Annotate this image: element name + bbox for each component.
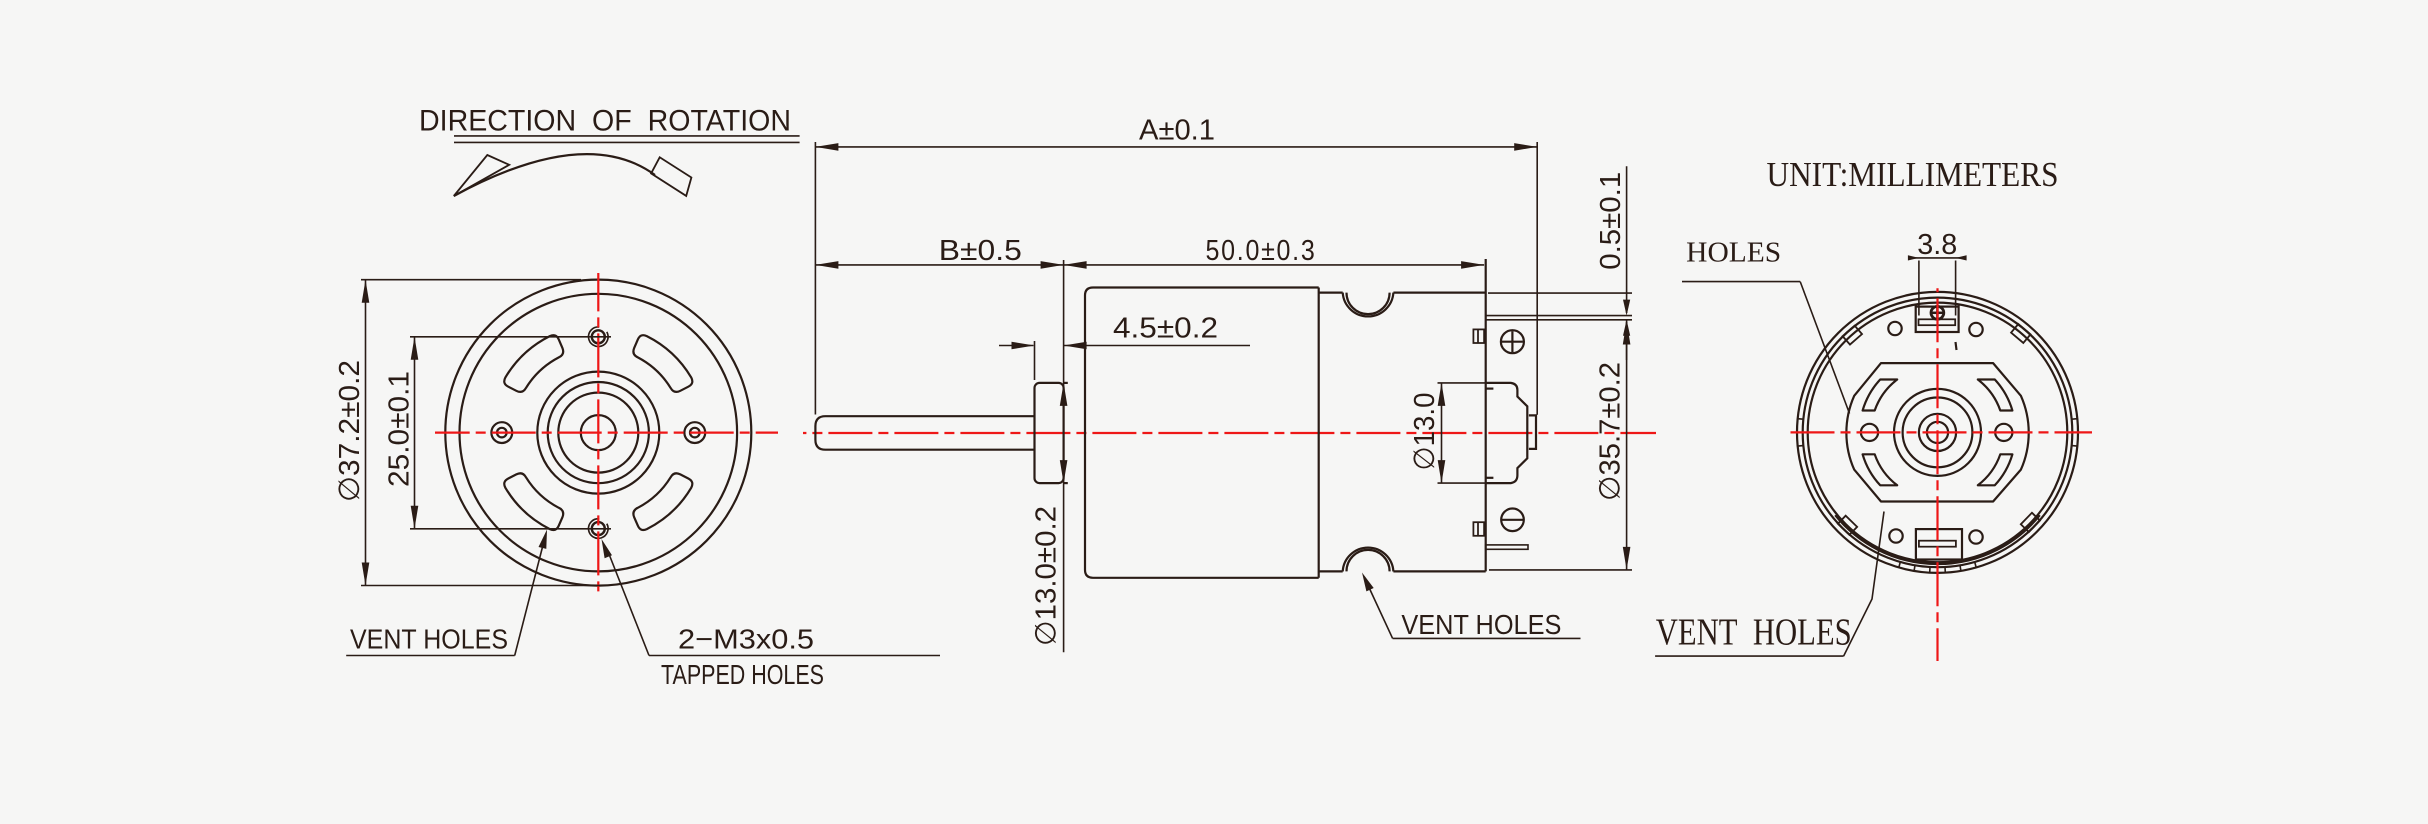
rear view small hole top-right — [1969, 323, 1982, 336]
rear view bearing rings — [1894, 389, 1981, 476]
front view bearing boss ring inner — [558, 393, 638, 473]
front view bearing boss ring middle — [548, 382, 649, 483]
svg-text:4.5±0.2: 4.5±0.2 — [1113, 313, 1218, 345]
rotation arrow head — [454, 155, 509, 196]
svg-text:TAPPED HOLES: TAPPED HOLES — [661, 659, 824, 690]
dimension line 25.0 — [414, 337, 416, 529]
rear view small hole top-left — [1888, 322, 1901, 335]
front tapped hole top — [592, 330, 605, 343]
rear vent slot lower-left — [1863, 454, 1898, 485]
front vent slot lower-left — [504, 473, 563, 530]
front view bearing boss ring outer — [537, 372, 659, 494]
dimension line phi37.2 — [365, 280, 367, 586]
side view screw head bottom — [1501, 509, 1524, 532]
front vent slot upper-left — [504, 335, 563, 392]
dimension 3.8 — [1918, 261, 1920, 316]
side view endcap face — [1485, 259, 1487, 571]
side view washer bottom bar — [1486, 545, 1528, 549]
side view can/endbell seam — [1318, 288, 1320, 578]
extension line endcap top — [1488, 292, 1632, 294]
rear view crimp ticks right — [2072, 418, 2078, 421]
dimension A line — [815, 146, 1537, 148]
dimension phi35.7 line — [1626, 320, 1628, 570]
dimension 0.5 line — [1626, 166, 1628, 313]
side view vent notch top — [1343, 293, 1394, 317]
front tapped hole bottom — [592, 522, 605, 535]
svg-text:VENT HOLES: VENT HOLES — [350, 624, 508, 655]
side view endbell bottom edge — [1319, 570, 1343, 572]
rotation arrow tail — [651, 157, 691, 196]
side view rear bearing boss — [1486, 383, 1528, 483]
side view motor can — [1085, 288, 1319, 578]
front view face rim circle — [460, 294, 738, 572]
rear view rim tabs — [2011, 324, 2030, 343]
svg-text:∅13.0±0.2: ∅13.0±0.2 — [1031, 506, 1063, 646]
rear view terminal top screw — [1931, 306, 1944, 319]
front view outer flange circle — [445, 280, 751, 586]
rear view crimp ticks bottom — [1899, 562, 1901, 568]
svg-text:2−M3x0.5: 2−M3x0.5 — [678, 624, 814, 655]
rear view terminal top — [1916, 307, 1959, 332]
rear view outer circle — [1797, 292, 2078, 573]
front view centerline vertical — [597, 273, 599, 593]
svg-text:∅13.0: ∅13.0 — [1409, 393, 1441, 471]
rear view hole left — [1861, 424, 1878, 441]
dimension line phi13.0 rear — [1441, 383, 1443, 483]
side view endbell top edge — [1319, 292, 1343, 294]
extension line endcap bottom — [1489, 569, 1632, 571]
rear view small hole bottom-right — [1969, 530, 1982, 543]
svg-text:VENT HOLES: VENT HOLES — [1656, 611, 1852, 653]
rear view hole right — [1995, 424, 2012, 441]
front pilot hole right — [684, 422, 705, 443]
svg-text:A±0.1: A±0.1 — [1139, 115, 1215, 147]
front view shaft hole — [581, 415, 616, 450]
side view vent notch bottom — [1343, 548, 1394, 572]
front view centerline horizontal — [435, 432, 778, 434]
dimension line phi13.0 bushing — [1063, 260, 1065, 652]
rear vent slot upper-right — [1978, 380, 2013, 411]
rear view centerline horizontal — [1787, 431, 2092, 433]
front pilot hole left — [491, 422, 512, 443]
svg-text:∅37.2±0.2: ∅37.2±0.2 — [334, 360, 366, 502]
front vent slot upper-right — [633, 335, 692, 392]
svg-text:25.0±0.1: 25.0±0.1 — [384, 371, 416, 487]
rear view index tick — [1956, 342, 1957, 350]
side view rear bearing nub — [1529, 415, 1536, 449]
svg-text:VENT HOLES: VENT HOLES — [1401, 609, 1561, 640]
svg-text:DIRECTION OF ROTATION: DIRECTION OF ROTATION — [419, 104, 791, 137]
rear vent slot lower-right — [1978, 454, 2013, 485]
side view shaft — [815, 416, 1034, 450]
svg-text:B±0.5: B±0.5 — [939, 235, 1022, 267]
svg-text:50.0±0.3: 50.0±0.3 — [1206, 235, 1317, 267]
rear view crimp ticks left — [1798, 418, 1804, 421]
side view boss tick bottom — [1486, 477, 1494, 479]
side view bushing — [1035, 383, 1064, 483]
front vent slot lower-right — [633, 473, 692, 530]
dimension 4.5 line — [999, 345, 1033, 347]
svg-text:UNIT:MILLIMETERS: UNIT:MILLIMETERS — [1767, 155, 2059, 194]
side view boss tick top — [1486, 388, 1494, 390]
svg-text:0.5±0.1: 0.5±0.1 — [1595, 172, 1627, 270]
rear vent slot upper-left — [1863, 380, 1898, 411]
rear view brush card outline — [1846, 363, 2028, 501]
rear view rim circle — [1803, 298, 2073, 568]
side view screw head top — [1501, 330, 1524, 353]
svg-text:3.8: 3.8 — [1917, 229, 1957, 261]
rear view small hole bottom-left — [1889, 529, 1902, 542]
rotation direction arc — [454, 154, 655, 196]
side view terminal tab top — [1473, 329, 1484, 343]
dimension 50.0 line — [1064, 264, 1485, 266]
rear view crimp arc — [1835, 515, 2040, 564]
side view terminal tab bottom — [1473, 522, 1484, 536]
side view centerline — [803, 432, 1656, 434]
svg-text:∅35.7±0.2: ∅35.7±0.2 — [1594, 362, 1626, 501]
svg-text:HOLES: HOLES — [1686, 238, 1781, 269]
rear view endcap circle — [1808, 303, 2068, 563]
side view washer top lines — [1486, 315, 1632, 317]
rear view terminal bottom — [1916, 529, 1962, 559]
rear view centerline vertical — [1936, 288, 1938, 661]
dimension B line — [815, 264, 1063, 266]
